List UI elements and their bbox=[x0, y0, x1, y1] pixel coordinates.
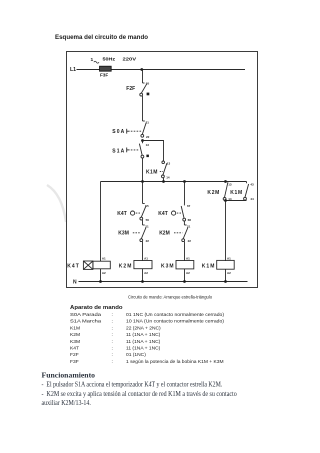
contact K3M (NC interlock) bbox=[118, 225, 149, 244]
timed contact K4T (NC) bbox=[117, 204, 149, 222]
svg-text:S0A: S0A bbox=[112, 129, 125, 135]
svg-text:A1: A1 bbox=[144, 256, 148, 260]
svg-text:Aparato de mando: Aparato de mando bbox=[70, 305, 123, 311]
node: bus junction K1M branch bbox=[162, 180, 165, 183]
contactor coil K3M bbox=[161, 256, 194, 275]
pushbutton S0A (NC) bbox=[112, 120, 149, 139]
svg-text:44: 44 bbox=[250, 197, 254, 201]
svg-text:K4T: K4T bbox=[67, 263, 79, 269]
svg-text:A2: A2 bbox=[102, 271, 106, 275]
supply label 1~ 50Hz 220V bbox=[91, 57, 137, 64]
node: bus junction K3M branch bbox=[183, 180, 186, 183]
svg-text:13: 13 bbox=[228, 182, 232, 186]
contactor coil K1M bbox=[202, 256, 234, 275]
svg-text:A1: A1 bbox=[186, 256, 190, 260]
node: bus junction right branch bbox=[224, 180, 227, 183]
wire: K1M contact to bus bbox=[163, 178, 165, 182]
svg-text::: : bbox=[112, 326, 113, 331]
svg-text:22 (2NA + 2NC): 22 (2NA + 2NC) bbox=[126, 325, 161, 331]
svg-text:13: 13 bbox=[167, 162, 171, 166]
fuse F3F bbox=[100, 66, 112, 77]
svg-text:S1A Marcha: S1A Marcha bbox=[70, 319, 101, 325]
timer coil K4T bbox=[67, 256, 110, 275]
wire: K1M coil to N bbox=[225, 269, 227, 281]
contact K2M (NC interlock) bbox=[159, 225, 191, 244]
svg-text::: : bbox=[112, 333, 113, 338]
svg-text:K1M: K1M bbox=[230, 190, 243, 196]
svg-text:01 1NC (Un contacto normalment: 01 1NC (Un contacto normalmente cerrado) bbox=[126, 312, 224, 318]
svg-text::: : bbox=[112, 360, 113, 365]
svg-text:50Hz: 50Hz bbox=[103, 57, 116, 63]
table rows bbox=[70, 312, 224, 365]
svg-text:A2: A2 bbox=[186, 271, 190, 275]
wire N rail bbox=[79, 281, 248, 283]
svg-text:K2M: K2M bbox=[159, 231, 170, 237]
svg-text:F2F: F2F bbox=[70, 352, 79, 358]
node: tie junction bbox=[224, 199, 227, 202]
wire: down to K1M coil bbox=[225, 201, 227, 262]
svg-text:K3M: K3M bbox=[70, 339, 80, 345]
wire: bus to K4T timed NC bbox=[142, 182, 144, 204]
wire: branch to K1M holding contact bbox=[143, 141, 164, 162]
svg-text:11 (1NA + 1NC): 11 (1NA + 1NC) bbox=[126, 346, 161, 352]
svg-text:22: 22 bbox=[146, 135, 150, 139]
node: N junction K1M bbox=[224, 280, 227, 283]
wire: K3M coil to N bbox=[184, 269, 186, 282]
svg-text:22: 22 bbox=[188, 239, 192, 243]
wire: F2F to S0A bbox=[142, 96, 144, 121]
svg-text:67: 67 bbox=[187, 204, 191, 208]
svg-text:K4T: K4T bbox=[70, 346, 79, 352]
svg-text:L1: L1 bbox=[70, 67, 76, 73]
svg-text:S0A Parada: S0A Parada bbox=[70, 312, 101, 318]
node: bus junction main bbox=[141, 180, 144, 183]
node: N junction K2M bbox=[141, 280, 144, 283]
svg-text:43: 43 bbox=[250, 182, 254, 186]
wire: L1 junction down to F2F bbox=[142, 70, 144, 84]
svg-text:K2M: K2M bbox=[70, 332, 80, 338]
svg-text:22: 22 bbox=[146, 239, 150, 243]
wire: left branch down to timer coil K4T bbox=[100, 182, 102, 262]
watermark arc bbox=[47, 185, 66, 222]
svg-text:K3M: K3M bbox=[118, 231, 129, 237]
pushbutton S1A (NO) bbox=[112, 141, 149, 159]
svg-text:56: 56 bbox=[146, 218, 150, 222]
holding contact K1M (NO) bbox=[146, 161, 170, 179]
svg-text:- El pulsador S1A acciona el: - El pulsador S1A acciona el temporizado… bbox=[42, 381, 223, 389]
wire: K2M coil to N bbox=[142, 269, 144, 282]
svg-text:A2: A2 bbox=[227, 271, 231, 275]
svg-text:A2: A2 bbox=[144, 271, 148, 275]
svg-text::: : bbox=[112, 340, 113, 345]
wire: K4T NC to K3M NC bbox=[142, 220, 144, 225]
svg-text:K2M: K2M bbox=[207, 190, 220, 196]
wire: K4T NO to K2M NC bbox=[183, 221, 185, 225]
svg-text:A1: A1 bbox=[227, 256, 231, 260]
svg-text:F3F: F3F bbox=[100, 72, 108, 77]
wire: K4T coil to N bbox=[100, 269, 102, 282]
wire: K3M NC to K2M coil bbox=[142, 242, 144, 261]
Funcionamiento section bbox=[42, 370, 238, 407]
bus wire bbox=[101, 181, 247, 183]
svg-text::: : bbox=[112, 347, 113, 352]
svg-text:N: N bbox=[73, 280, 77, 286]
svg-text:Esquema del circuito de mando: Esquema del circuito de mando bbox=[55, 34, 148, 41]
svg-text:F2F: F2F bbox=[126, 86, 135, 92]
svg-text:auxiliar K2M/13-14.: auxiliar K2M/13-14. bbox=[42, 399, 92, 407]
svg-text:Circuito de mando: Arranque es: Circuito de mando: Arranque estrella-tri… bbox=[128, 295, 213, 300]
wire: parallel contacts bottom tie bbox=[226, 200, 247, 202]
svg-text:- K2M se excita y aplica tens: - K2M se excita y aplica tensión al cont… bbox=[42, 390, 238, 398]
svg-text:S1A: S1A bbox=[112, 149, 125, 155]
wire: K2M NC to K3M coil bbox=[184, 242, 186, 261]
junction on L1 bbox=[140, 68, 143, 71]
svg-text::: : bbox=[112, 353, 113, 358]
svg-text:A1: A1 bbox=[102, 256, 106, 260]
node: junction below S0A bbox=[141, 139, 144, 142]
wire: S1A to bus bbox=[142, 158, 144, 182]
svg-text:11 (1NA + 1NC): 11 (1NA + 1NC) bbox=[126, 332, 161, 338]
node: N junction K3M bbox=[183, 280, 186, 283]
overload contact F2F bbox=[126, 81, 149, 96]
wire L1 rail bbox=[77, 69, 246, 71]
svg-text:01 (1NC): 01 (1NC) bbox=[126, 352, 146, 358]
node: N junction K4T bbox=[99, 280, 102, 283]
svg-text:13: 13 bbox=[146, 143, 150, 147]
svg-text:11 (1NA + 1NC): 11 (1NA + 1NC) bbox=[126, 339, 161, 345]
svg-text:K2M: K2M bbox=[119, 263, 133, 269]
svg-text::: : bbox=[112, 320, 113, 325]
svg-text:10 1NA (Un contacto normalment: 10 1NA (Un contacto normalmente cerrado) bbox=[126, 319, 224, 325]
timed contact K4T (NO) bbox=[158, 204, 191, 222]
svg-text:K4T: K4T bbox=[117, 211, 126, 217]
contact K1M (NO, right) bbox=[230, 182, 254, 202]
contact K2M (NO, seal-in right) bbox=[207, 182, 231, 201]
wire: bus to K4T timed NO bbox=[184, 182, 186, 204]
svg-text:K1M: K1M bbox=[70, 325, 80, 331]
svg-text:68: 68 bbox=[188, 218, 192, 222]
contactor coil K2M bbox=[119, 256, 152, 275]
svg-text:1: 1 bbox=[91, 57, 94, 63]
schematic frame bbox=[67, 52, 258, 288]
svg-text:Funcionamiento: Funcionamiento bbox=[42, 370, 96, 379]
svg-text::: : bbox=[112, 313, 113, 318]
svg-text:1 según la potencia de la bobi: 1 según la potencia de la bobina K1M + K… bbox=[126, 359, 224, 365]
svg-text:K1M: K1M bbox=[202, 263, 216, 269]
svg-text:14: 14 bbox=[166, 175, 170, 179]
svg-text:220V: 220V bbox=[123, 57, 137, 63]
svg-text:F3F: F3F bbox=[70, 359, 79, 365]
svg-text:K4T: K4T bbox=[158, 211, 167, 217]
svg-text:K3M: K3M bbox=[161, 263, 175, 269]
svg-text:K1M: K1M bbox=[146, 170, 158, 176]
